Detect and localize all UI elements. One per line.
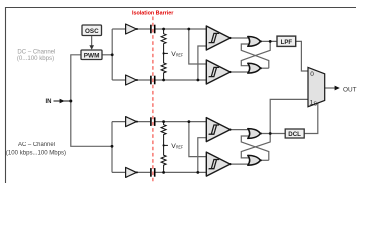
svg-text:OUT: OUT (343, 87, 357, 94)
svg-text:REF: REF (176, 53, 183, 58)
svg-text:LPF: LPF (281, 39, 293, 46)
svg-text:(100 kbps...100 Mbps): (100 kbps...100 Mbps) (6, 150, 66, 156)
svg-text:REF: REF (176, 145, 183, 150)
svg-text:S: S (313, 102, 317, 108)
svg-text:OSC: OSC (85, 28, 99, 35)
svg-text:AC – Channel: AC – Channel (18, 142, 55, 148)
svg-text:DCL: DCL (288, 131, 301, 138)
svg-text:(0...100 kbps): (0...100 kbps) (17, 55, 54, 62)
svg-text:0: 0 (310, 71, 314, 78)
svg-text:IN: IN (46, 99, 52, 105)
svg-text:PWM: PWM (84, 53, 100, 60)
svg-text:Isolation Barrier: Isolation Barrier (132, 10, 174, 16)
